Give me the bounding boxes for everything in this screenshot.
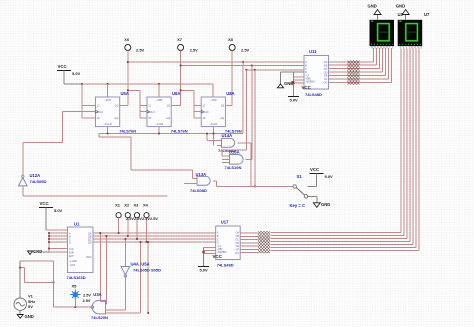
wire display U2 pins (372, 46, 393, 48)
ground above display U7 (396, 4, 409, 20)
svg-text:~1Q: ~1Q (114, 116, 119, 120)
svg-text:1K: 1K (202, 116, 205, 120)
svg-text:74LS76N: 74LS76N (119, 128, 136, 133)
svg-text:X4: X4 (143, 203, 149, 208)
inverter U12A 74LS05D (19, 173, 47, 186)
junction U1 tie EN (48, 248, 50, 250)
decoder U17 74LS48D (216, 220, 241, 268)
wire U8A PR pin to rail (212, 84, 214, 97)
indicator probe X6 (124, 37, 144, 53)
indicator probe X8 (228, 37, 250, 53)
wire U3A output net to U12A chain (20, 261, 92, 307)
svg-text:X3: X3 (134, 203, 140, 208)
svg-text:~1CLR: ~1CLR (155, 122, 163, 126)
wire U4A output to U3A input 3 (106, 276, 126, 310)
ground at U1 (28, 249, 50, 255)
wire bus bit2 down to U4A inverter (124, 239, 126, 267)
AND gate U14A 74LS08D (217, 133, 251, 153)
wire U1 data inputs tie (49, 233, 68, 252)
indicator probe X1 (115, 203, 121, 218)
svg-text:74LS10N: 74LS10N (225, 165, 242, 170)
junction CLR net at U6A (158, 133, 160, 135)
svg-text:U12A: U12A (30, 173, 41, 178)
wire VCC rail y=84 across flip-flop PR pins (82, 83, 213, 85)
svg-text:~1PR: ~1PR (156, 98, 163, 102)
svg-text:X5: X5 (72, 284, 78, 289)
indicator probe X2 (124, 203, 130, 218)
wire U17 lamp-test tie (204, 247, 216, 266)
junction U1 tie D (48, 241, 50, 243)
wire bundle U17 outputs to display U7 (240, 49, 419, 253)
svg-text:Key = C: Key = C (290, 203, 305, 208)
svg-text:2.5V: 2.5V (83, 298, 91, 303)
svg-text:GND: GND (25, 314, 34, 319)
junction X2 on bus (127, 235, 129, 237)
junction U11 LT net (291, 81, 294, 84)
junction U1 tie A (48, 232, 50, 234)
svg-text:74LS163D: 74LS163D (67, 275, 86, 280)
wire vertical QD column to switch net (254, 70, 256, 187)
svg-text:U6A: U6A (172, 91, 180, 96)
svg-text:5.0V: 5.0V (54, 208, 63, 213)
svg-text:X7: X7 (177, 37, 183, 42)
junction QC second branch at x=254.8 (254, 69, 256, 71)
svg-text:OG: OG (324, 82, 328, 85)
svg-text:5.0V: 5.0V (290, 98, 299, 103)
wire bus bit3 down to U3A input 4 (106, 242, 141, 313)
wire QB net to U11 input B (181, 65, 304, 67)
power symbol VCC below U17 5.0V (198, 254, 223, 273)
svg-text:~1CLR: ~1CLR (209, 122, 217, 126)
junction bit3b branch (147, 241, 149, 243)
wire X8 to U8A output Q (225, 51, 232, 106)
svg-text:5V: 5V (28, 304, 33, 309)
svg-text:D: D (69, 242, 71, 245)
svg-text:~CLR: ~CLR (69, 264, 75, 267)
wire X2 to bus (127, 218, 129, 236)
ground below V1 (17, 310, 34, 319)
svg-text:74LS48D: 74LS48D (217, 263, 234, 268)
wire QC net to U11 input C (246, 69, 304, 71)
junction CLR net at U8A column (213, 133, 215, 135)
svg-text:GND: GND (321, 202, 330, 207)
wire X5 to output net (74, 298, 76, 307)
svg-text:X2: X2 (124, 203, 130, 208)
power symbol VCC at U1 (39, 201, 68, 230)
svg-text:2.5V: 2.5V (241, 48, 250, 53)
wire U14A output drop (250, 143, 252, 187)
svg-text:1Q: 1Q (167, 104, 170, 108)
junction U3A output at X5 (74, 306, 76, 308)
svg-text:2.5V2.5V2.5V2.5V: 2.5V2.5V2.5V2.5V (126, 216, 158, 221)
power symbol VCC (top-left) 5.0V (57, 64, 82, 84)
wire vertical QA column to CLR net (242, 62, 244, 134)
wire X6 to U5A output Q (120, 51, 128, 106)
wire crossover lattice right of U17 (258, 231, 270, 253)
junction QA at x=243.1 (242, 61, 244, 63)
wire X1 to bus (118, 218, 120, 233)
junction CLR net at U5A (107, 133, 109, 135)
svg-text:X1: X1 (115, 203, 121, 208)
wire bus bit3b down to U3A input 4 right (147, 242, 149, 313)
svg-text:5.0V: 5.0V (200, 267, 209, 272)
junction cascade at X7 column (180, 89, 182, 91)
svg-text:U3A: U3A (93, 292, 101, 297)
wire bus bit1 down to U3A input 2 (105, 236, 108, 304)
counter U1 74LS163D (67, 222, 94, 281)
junction VCC rail at x=81.9 (81, 83, 83, 85)
indicator probe X3 (134, 203, 140, 218)
svg-text:2.5V: 2.5V (136, 48, 145, 53)
junction VCC rail at FF1 PR (107, 83, 109, 85)
7-segment display U2 showing 0 (370, 20, 395, 46)
svg-text:U1: U1 (74, 222, 80, 227)
svg-text:1K: 1K (97, 116, 100, 120)
svg-text:~1PR: ~1PR (210, 98, 217, 102)
svg-text:1Q: 1Q (221, 104, 224, 108)
wire QA net to U11 input A (128, 61, 304, 63)
svg-text:VCC: VCC (40, 201, 49, 206)
svg-text:2.5V: 2.5V (190, 48, 199, 53)
svg-text:QD: QD (88, 242, 92, 245)
wire U6A CLR pin down (158, 127, 160, 134)
JK flip-flop U5A 74LS76N (96, 91, 137, 133)
svg-text:U5A: U5A (121, 91, 129, 96)
junction bit0 branch (99, 232, 101, 234)
wire U17 input stubs (208, 233, 216, 242)
power symbol VCC at S1 (308, 167, 334, 186)
wire X3 to bus (136, 218, 138, 239)
junction U14A feed (206, 133, 208, 135)
svg-text:1Q: 1Q (115, 104, 118, 108)
wire bus bit0 down to U3A input 1 (100, 233, 105, 301)
junction cascade at X6 column (127, 89, 129, 91)
junction U1 tie B (48, 235, 50, 237)
svg-text:U14A: U14A (222, 133, 233, 138)
wire U6A PR pin to rail (158, 84, 160, 97)
svg-text:U11: U11 (309, 49, 317, 54)
svg-text:X8: X8 (228, 37, 234, 42)
svg-text:VCC: VCC (213, 254, 223, 259)
junction QC at x=246.3 (245, 69, 247, 71)
svg-text:U8A: U8A (226, 91, 234, 96)
junction QB at x=251.8 (251, 65, 253, 67)
svg-text:~BI/RBO: ~BI/RBO (305, 81, 315, 84)
wire bundle U11 outputs to display U2 (329, 48, 392, 82)
svg-text:S1: S1 (297, 174, 303, 179)
power symbol VCC below U11 5.0V (288, 85, 312, 103)
junction bit3b at gate input (147, 312, 149, 314)
wire U11 lamp-test pins (294, 72, 305, 97)
wire U14A in1 feed (207, 134, 222, 141)
inverter U4A 74LS05D (121, 261, 161, 277)
wire V1 to clock net (19, 261, 21, 298)
wire CLR collector net under flip-flops (99, 134, 243, 179)
wire display U7 pins (400, 46, 421, 48)
wire crossover lattice right of U11 (348, 61, 360, 85)
svg-text:U17: U17 (221, 220, 229, 225)
junction QA at X6 column (127, 61, 129, 63)
JK flip-flop U8A 74LS76N (201, 91, 242, 133)
svg-text:RCO: RCO (86, 256, 91, 259)
svg-text:GND: GND (396, 4, 405, 9)
svg-text:VCC: VCC (310, 167, 319, 172)
svg-text:OG: OG (235, 252, 239, 255)
AC source V1 5Hz 5V (14, 294, 35, 311)
svg-text:ENT: ENT (69, 255, 74, 258)
wire VCC drop to U5A J/K pins (82, 84, 96, 118)
svg-text:X6: X6 (124, 37, 130, 42)
indicator probe X5 (blue) (70, 284, 91, 304)
junction V1 top (19, 267, 21, 269)
junction X3 on bus (136, 238, 138, 240)
svg-text:VCC: VCC (58, 64, 67, 69)
svg-text:2.5V: 2.5V (83, 293, 91, 298)
wire U5A CLR pin down (107, 127, 109, 134)
svg-text:~1Q: ~1Q (165, 116, 170, 120)
junction X1 on bus (118, 232, 120, 234)
svg-text:~LOAD: ~LOAD (69, 260, 77, 263)
svg-text:~1PR: ~1PR (104, 98, 111, 102)
svg-text:74LS48D: 74LS48D (305, 92, 322, 97)
decoder U11 74LS48D (304, 49, 329, 97)
svg-text:5.0V: 5.0V (325, 174, 334, 179)
junction bit3 branch (140, 241, 142, 243)
wire X7 to U6A output Q (171, 51, 180, 106)
svg-text:GND: GND (33, 249, 42, 254)
wire U16A feed from QB column (222, 70, 246, 156)
JK flip-flop U6A 74LS76N (147, 91, 188, 133)
svg-text:74LS08D: 74LS08D (190, 188, 207, 193)
wire vertical U16A output column (251, 66, 253, 160)
junction U17 LT net (202, 251, 204, 253)
junction QD column at switch net (254, 186, 256, 188)
wire U5A PR pin to rail (107, 84, 109, 97)
svg-text:~1Q: ~1Q (219, 116, 224, 120)
wire U8A CLR pin down to U14A (213, 127, 215, 146)
junction VCC rail at FF2 PR (158, 83, 160, 85)
AND gate U16A 74LS10N (3-input) (222, 150, 252, 171)
ground above display U2 (368, 4, 382, 20)
svg-text:74LS05D S05D: 74LS05D S05D (133, 267, 161, 272)
wire X4 to bus (146, 218, 148, 242)
junction bit2 branch (125, 238, 127, 240)
NAND gate U3A 74LS20N (4-input, mirrored) (83, 292, 108, 320)
junction X4 on bus (146, 241, 148, 243)
wire cascade U5A Q to U6A CLK (128, 90, 147, 118)
junction feedback at clock column (53, 282, 55, 284)
junction U1 tie C (48, 238, 50, 240)
svg-text:~1CLR: ~1CLR (104, 122, 112, 126)
wire U12A input from below (23, 186, 168, 196)
indicator probe X4 (143, 203, 149, 218)
switch S1 Key=C (290, 174, 308, 208)
ground at U11 (277, 72, 304, 88)
svg-text:74LS20N: 74LS20N (91, 315, 108, 320)
svg-text:GND: GND (368, 4, 377, 9)
svg-text:VCC: VCC (302, 85, 312, 90)
wire feedback elbow net (20, 268, 54, 283)
svg-text:1K: 1K (148, 116, 151, 120)
svg-text:U7: U7 (424, 12, 430, 17)
wire clock into U5A CLK (23, 112, 96, 176)
7-segment display U7 showing 0 (398, 20, 423, 46)
svg-text:5.0V: 5.0V (72, 71, 81, 76)
indicator probe X7 (177, 37, 198, 53)
wire cascade U6A Q to U8A CLK (181, 90, 202, 118)
junction bit1 branch (106, 235, 108, 237)
AND gate U13A 74LS08D (184, 172, 217, 193)
svg-text:74LS05D: 74LS05D (30, 179, 47, 184)
wire U13A output to switch S1 (217, 181, 293, 187)
junction QB at X7 column (180, 65, 182, 67)
svg-text:74LS76N: 74LS76N (171, 128, 188, 133)
ground at S1 (308, 196, 331, 207)
wire bus U1 outputs to U17 inputs (93, 233, 216, 242)
svg-text:U4A_U5A: U4A_U5A (131, 261, 150, 266)
